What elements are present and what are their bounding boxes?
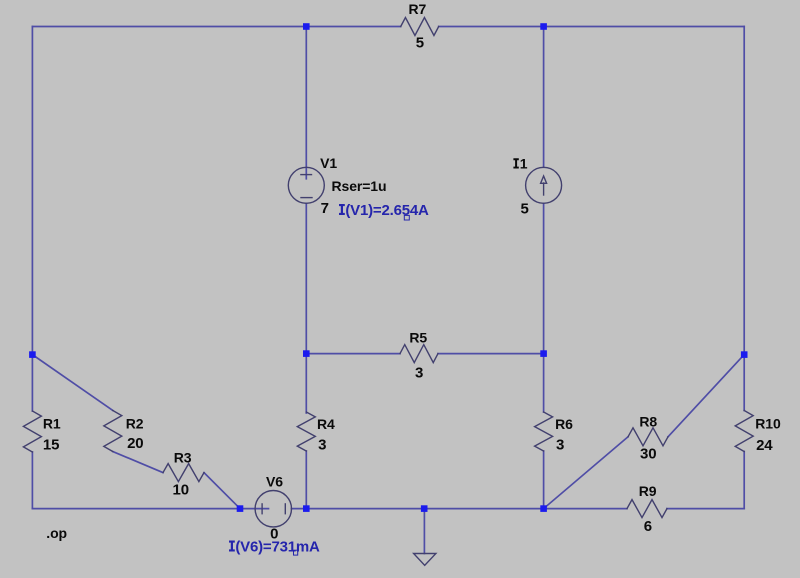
svg-text:30: 30: [640, 446, 656, 463]
svg-text:10: 10: [173, 482, 189, 499]
svg-text:R9: R9: [639, 483, 657, 499]
svg-text:(V6)=731mA: (V6)=731mA: [235, 539, 320, 556]
svg-text:5: 5: [416, 35, 424, 52]
svg-text:R4: R4: [317, 416, 335, 432]
svg-text:R1: R1: [43, 416, 61, 432]
svg-text:6: 6: [644, 518, 652, 535]
svg-text:.op: .op: [46, 525, 67, 541]
svg-text:5: 5: [521, 201, 529, 218]
svg-text:R6: R6: [555, 416, 573, 432]
svg-text:R10: R10: [755, 416, 781, 432]
svg-text:R5: R5: [409, 330, 427, 346]
svg-text:3: 3: [556, 437, 564, 454]
svg-text:3: 3: [415, 365, 423, 382]
svg-text:(V1)=2.654A: (V1)=2.654A: [345, 202, 429, 219]
svg-text:24: 24: [756, 437, 773, 454]
svg-text:7: 7: [321, 200, 329, 217]
svg-text:20: 20: [127, 435, 143, 452]
svg-text:V6: V6: [266, 474, 283, 490]
svg-text:V1: V1: [320, 155, 337, 171]
svg-text:3: 3: [318, 437, 326, 454]
svg-text:R3: R3: [174, 450, 192, 466]
svg-text:R8: R8: [639, 413, 657, 429]
svg-text:R2: R2: [126, 416, 144, 432]
svg-text:15: 15: [43, 437, 59, 454]
svg-text:1: 1: [520, 156, 528, 172]
svg-text:R7: R7: [409, 1, 427, 17]
svg-text:Rser=1u: Rser=1u: [332, 178, 387, 194]
